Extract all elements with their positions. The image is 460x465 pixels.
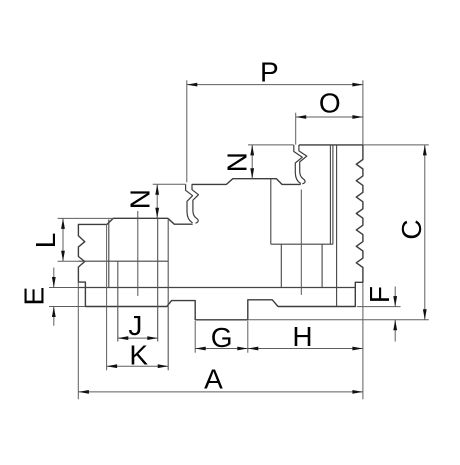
svg-text:H: H bbox=[292, 321, 312, 352]
break mark left bbox=[186, 184, 193, 222]
dim F: top extension bbox=[357, 306, 401, 308]
left hole center line bbox=[137, 211, 139, 296]
right block hole line a bbox=[329, 145, 331, 244]
dim L line bbox=[62, 218, 64, 261]
dim K extension left bbox=[106, 224, 108, 370]
dim N right: top extension bbox=[248, 144, 294, 146]
left block slot wall left + J ext bbox=[117, 261, 119, 341]
left block counterbore wall left bbox=[108, 220, 110, 288]
dim O line bbox=[296, 116, 363, 118]
internal line: left serration/counterbore plane bbox=[78, 260, 168, 262]
dim N left: top extension bbox=[153, 183, 186, 185]
dim E line + arrows outside bbox=[53, 268, 55, 326]
internal line: base plane bbox=[78, 287, 355, 289]
dim C: top extension bbox=[363, 144, 429, 146]
dim G line bbox=[195, 348, 248, 350]
dim G arrows bbox=[195, 347, 248, 351]
dim E: bottom extension bbox=[49, 306, 85, 308]
svg-text:N: N bbox=[221, 152, 252, 172]
right block counterbore wall left bbox=[270, 179, 272, 245]
svg-text:N: N bbox=[125, 189, 156, 209]
svg-text:F: F bbox=[364, 286, 395, 303]
dim C / F bottom extension bbox=[248, 319, 429, 321]
dim P extension left bbox=[186, 80, 188, 182]
dim A arrows bbox=[78, 390, 363, 394]
left block slot wall right + J ext bbox=[157, 218, 159, 341]
dim A extensions bbox=[78, 282, 363, 399]
dim C line bbox=[424, 145, 426, 320]
svg-text:G: G bbox=[211, 322, 233, 353]
dim P/O extension right bbox=[362, 80, 364, 145]
svg-text:L: L bbox=[30, 233, 61, 249]
dim K arrows bbox=[107, 364, 169, 368]
dim E: top extension bbox=[49, 287, 78, 289]
svg-text:P: P bbox=[260, 57, 279, 88]
right block inner wall bbox=[336, 145, 338, 307]
svg-text:A: A bbox=[204, 364, 223, 395]
dim C arrows bbox=[423, 145, 427, 320]
svg-text:C: C bbox=[396, 219, 427, 239]
right hole center line bbox=[300, 190, 302, 295]
dim N right arrows bbox=[250, 145, 254, 179]
dim N right line bbox=[251, 145, 253, 179]
dim G/H extensions bbox=[195, 321, 248, 353]
right slot wall left bbox=[280, 244, 282, 287]
dim N left arrows bbox=[155, 184, 159, 218]
right counterbore bottom bbox=[271, 243, 333, 245]
dim P arrows bbox=[187, 83, 363, 87]
dim L: top extension bbox=[58, 217, 114, 219]
right slot wall right bbox=[321, 244, 323, 287]
dim H line bbox=[248, 348, 363, 350]
dim A line bbox=[78, 391, 363, 393]
right block hole line b bbox=[332, 145, 334, 244]
dim J arrows bbox=[118, 336, 158, 340]
svg-text:O: O bbox=[319, 87, 341, 118]
dim O extension left bbox=[295, 113, 297, 145]
dim N left line bbox=[156, 184, 158, 218]
svg-text:E: E bbox=[19, 287, 50, 306]
dim O arrows bbox=[296, 115, 363, 119]
dim K line bbox=[107, 365, 169, 367]
dim L arrows bbox=[61, 218, 65, 261]
dim J line bbox=[118, 337, 158, 339]
dim P line bbox=[187, 84, 363, 86]
svg-text:J: J bbox=[128, 310, 142, 341]
dim F line + arrows outside bbox=[394, 287, 396, 342]
break mark right bbox=[294, 145, 303, 184]
jaw body outline bbox=[78, 145, 363, 320]
svg-text:K: K bbox=[129, 339, 148, 370]
left block counterbore wall right + K ext bbox=[167, 218, 169, 370]
dim H arrows bbox=[248, 347, 363, 351]
jaw middle step surface bbox=[192, 179, 301, 185]
dim L: bottom extension bbox=[58, 260, 79, 262]
